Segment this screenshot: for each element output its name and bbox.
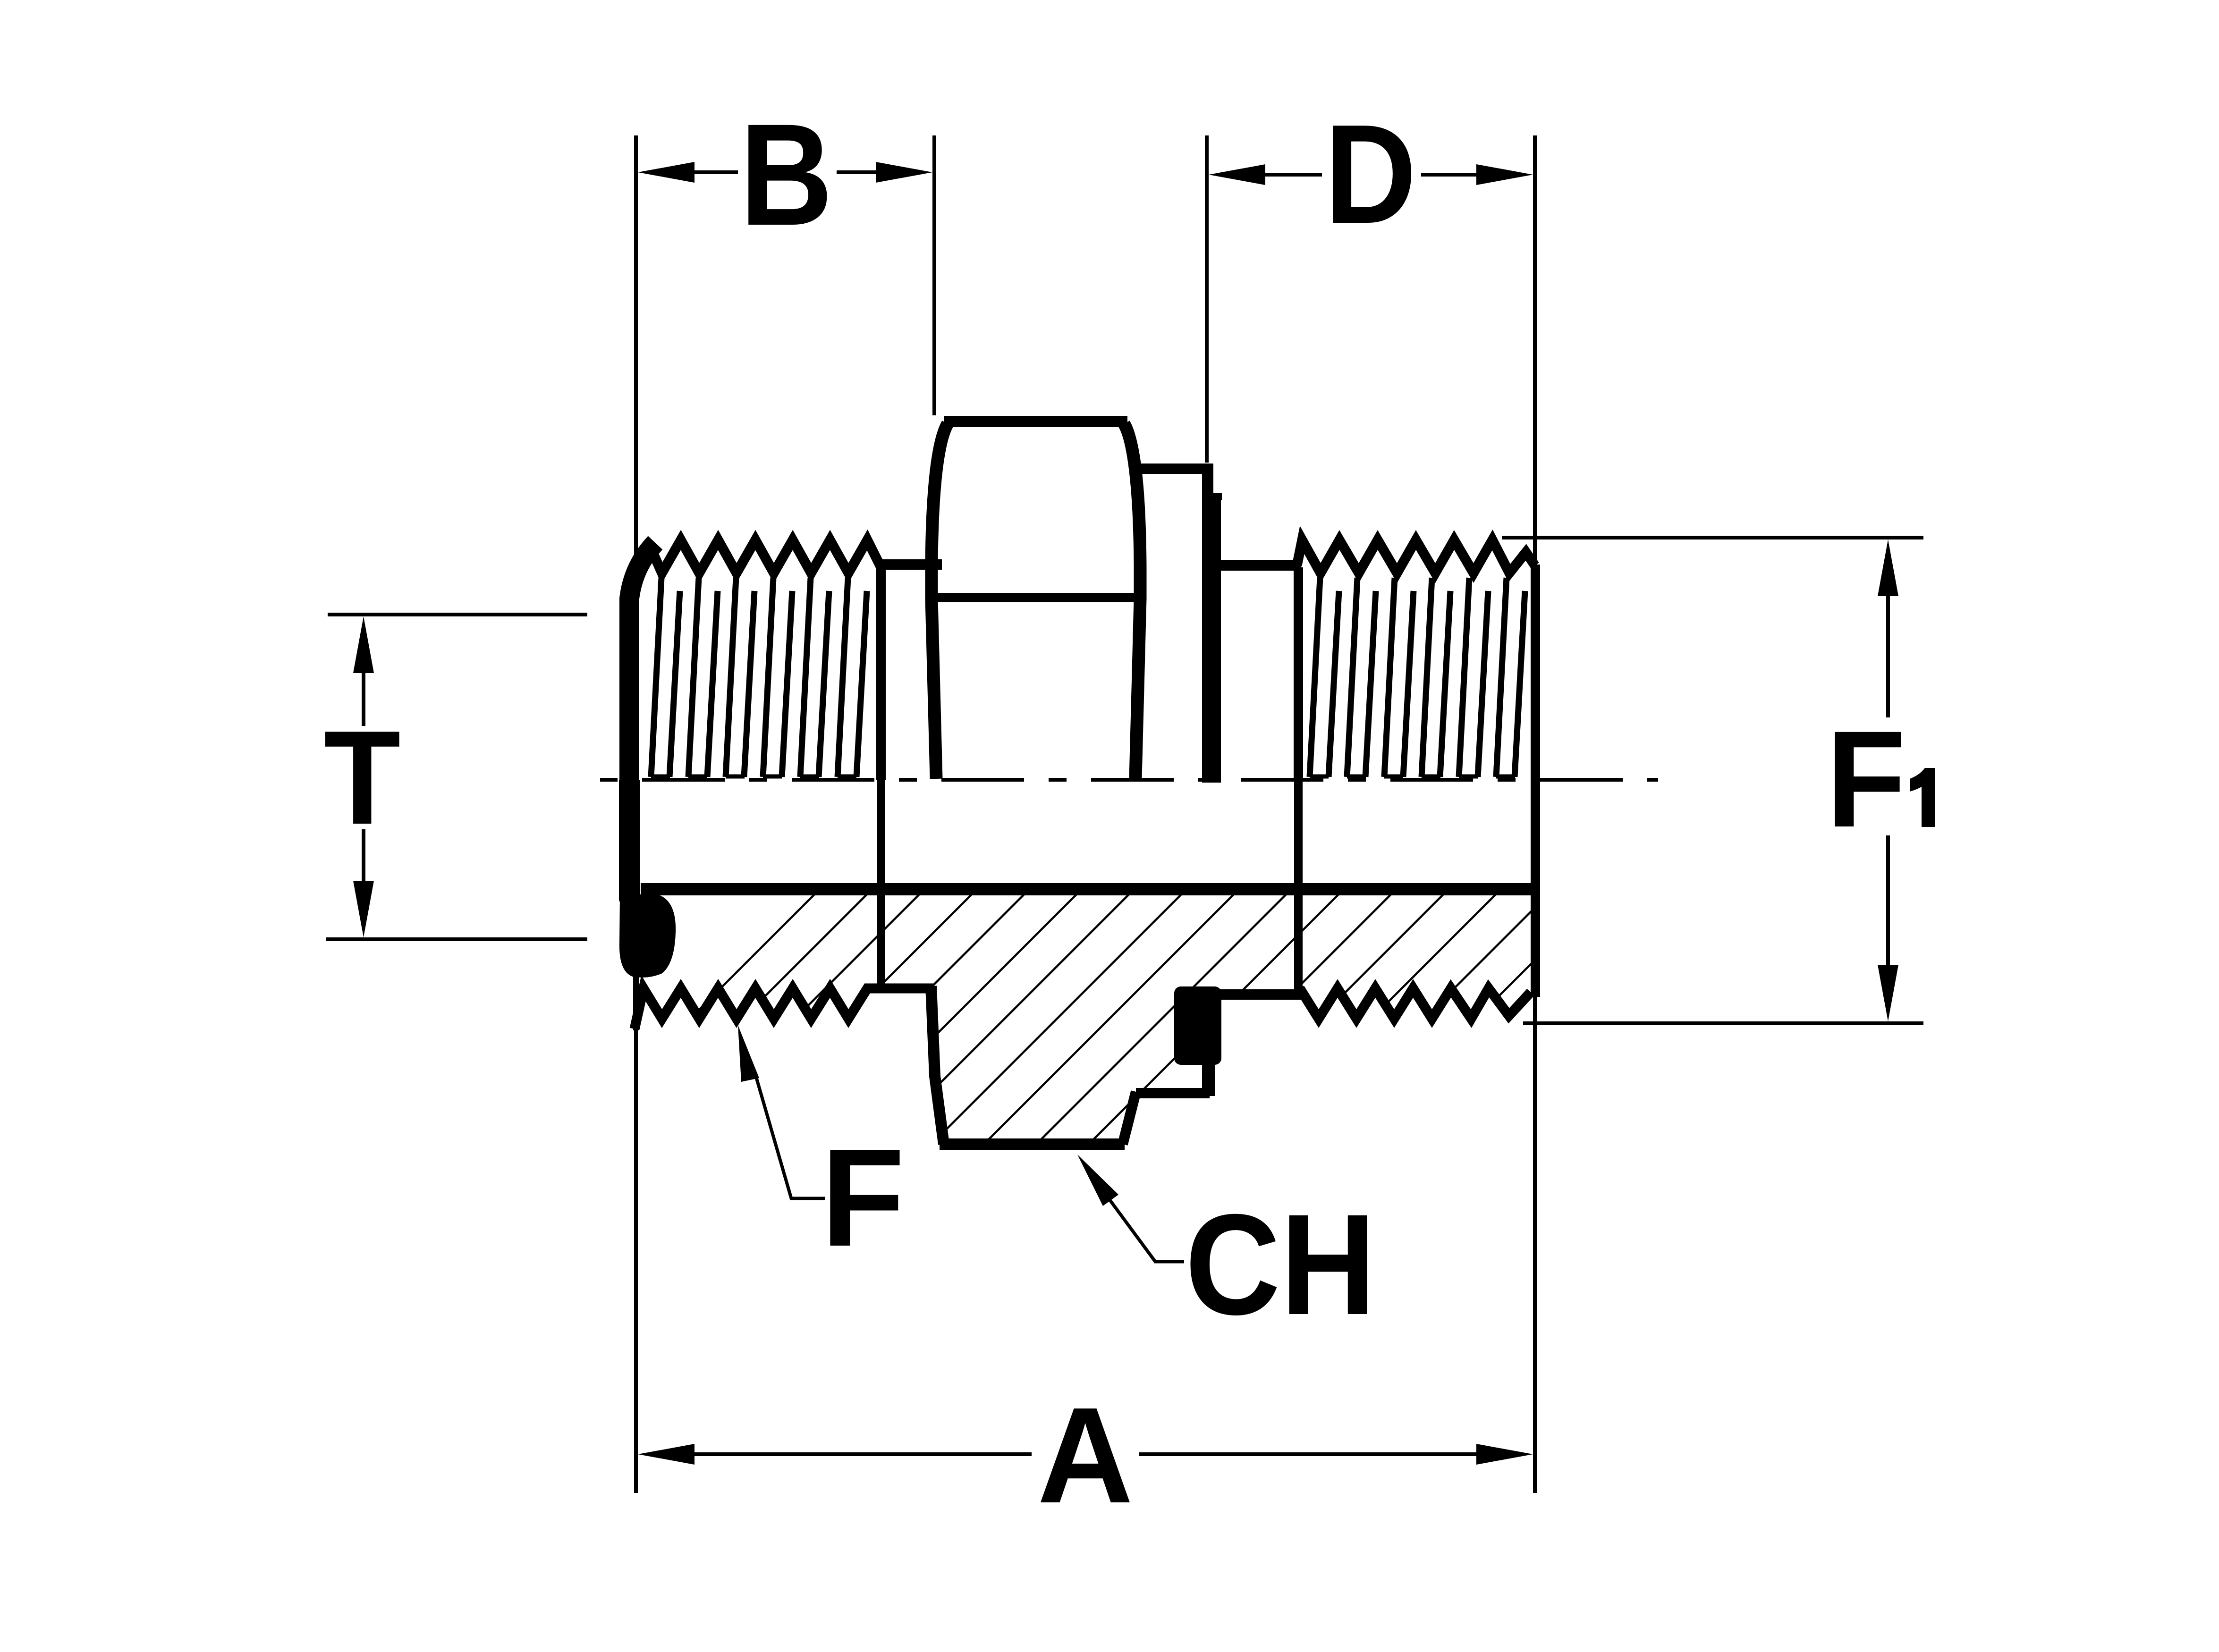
left end edge (bottom) [619, 780, 640, 901]
dimension B line right segment [837, 170, 883, 174]
dimension D extension line right [1533, 135, 1537, 1493]
dimension T up arrow [353, 616, 374, 673]
right thread start edge (bottom) [1294, 780, 1303, 995]
dimension F1 extension line bottom [1523, 1021, 1923, 1025]
dimension F1 line lower segment [1886, 835, 1890, 972]
dimension T extension line bottom [326, 937, 587, 941]
svg-text:T: T [324, 703, 400, 852]
hex nut left flank [932, 424, 948, 779]
shaft line right of washer [1215, 560, 1301, 571]
leader F arrowhead [738, 1025, 759, 1082]
left thread root zigzag (section bottom) [635, 988, 934, 1029]
bore line (section inner wall) [641, 883, 1533, 895]
hex section left edge [931, 986, 944, 1144]
right thread start edge [1294, 567, 1303, 780]
washer right face [1212, 497, 1221, 783]
dimension D right arrow [1476, 164, 1533, 185]
dimension B right arrow [876, 162, 932, 183]
hex nut middle edge line [934, 593, 1137, 602]
dimension F1 extension line top [1502, 536, 1923, 539]
dimension T extension line top [328, 613, 587, 616]
dimension D line left segment [1258, 173, 1322, 177]
svg-text:A: A [1037, 1380, 1133, 1532]
dimension F1 down arrow [1878, 965, 1898, 1021]
left thread flank lines [651, 578, 661, 777]
lower left edge below O-ring [633, 971, 639, 1030]
retaining ring (section, solid) [1174, 986, 1221, 1065]
dimension A line left segment [689, 1452, 1032, 1456]
hex section bottom face [940, 1138, 1125, 1150]
dimension T line lower segment [362, 829, 365, 885]
shaft line bottom right of ring [1217, 989, 1301, 1000]
right thread flank bottom connector [1310, 775, 1329, 779]
shaft line left of hex [877, 559, 942, 570]
retaining ring stub [1202, 1057, 1215, 1096]
svg-text:F: F [821, 1120, 905, 1275]
leader line CH [1094, 1179, 1184, 1262]
right thread flank lines [1310, 578, 1320, 777]
hex nut right flank [1124, 424, 1140, 779]
svg-text:CH: CH [1185, 1184, 1376, 1344]
right end face edge [1531, 565, 1540, 997]
dimension T down arrow [353, 881, 374, 937]
hex nut top face [944, 416, 1127, 427]
dimension A right arrow [1476, 1444, 1533, 1465]
O-ring seal (section, left groove) [621, 896, 674, 976]
centerline axis [600, 778, 1658, 782]
dimension F1 up arrow [1878, 539, 1898, 596]
washer top step [1209, 493, 1222, 500]
right thread root zigzag (section bottom) [1300, 988, 1531, 1019]
dimension B extension line left [634, 135, 638, 1493]
svg-text:B: B [740, 93, 833, 256]
dimension D line right segment [1421, 173, 1477, 177]
collar top line [1137, 464, 1213, 474]
collar right face [1202, 469, 1213, 783]
dimension B line left segment [687, 170, 738, 174]
svg-text:D: D [1324, 96, 1416, 253]
dimension B extension line right [932, 135, 936, 415]
dimension A line right segment [1139, 1452, 1482, 1456]
dimension F1 line upper segment [1886, 590, 1890, 717]
dimension B left arrow [638, 162, 694, 183]
dimension D extension line left [1205, 135, 1209, 463]
svg-text:F: F [1826, 703, 1906, 856]
section hatching [519, 831, 2031, 1189]
hex-to-collar chamfer [1123, 1092, 1136, 1144]
dimension T line upper segment [362, 668, 365, 726]
left thread crest zigzag (top) [651, 540, 882, 573]
left thread runout edge [876, 565, 886, 780]
dimension D left arrow [1209, 164, 1265, 185]
left thread chamfer and left end edge [629, 543, 655, 902]
collar bottom line [1136, 1088, 1210, 1098]
left thread runout edge (bottom) [877, 780, 885, 987]
leader CH arrowhead [1077, 1155, 1118, 1206]
right thread crest zigzag (top) [1297, 540, 1535, 573]
dimension A left arrow [638, 1444, 694, 1465]
leader line F [756, 1076, 825, 1198]
left thread flank bottom connector [651, 775, 670, 779]
